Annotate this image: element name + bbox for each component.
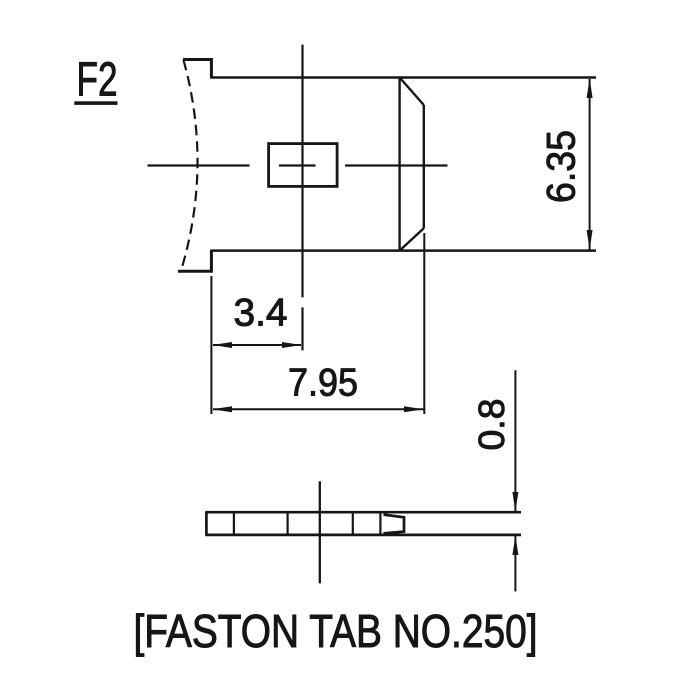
side view crimped tip (384, 515, 405, 534)
side view bend tick 1 (233, 512, 235, 536)
chamfer bottom diagonal (400, 228, 424, 250)
svg-text:6.35: 6.35 (540, 130, 584, 203)
side view bend tick 4 (379, 512, 381, 536)
side view bend tick 3 (352, 512, 354, 536)
extension line right (7.95) (423, 233, 425, 414)
dimension 6.35 (540, 78, 593, 250)
svg-text:3.4: 3.4 (234, 292, 288, 335)
dimension 3.4 (212, 292, 301, 349)
chamfer top diagonal (400, 78, 424, 106)
dimension 0.8 (471, 370, 518, 591)
side view bottom surface with extension to 0.8 dim (206, 534, 522, 537)
chamfer end vertical (423, 105, 425, 228)
svg-text:[FASTON TAB NO.250]: [FASTON TAB NO.250] (134, 605, 538, 657)
latch hole rectangle (269, 144, 338, 187)
svg-text:F2: F2 (77, 53, 118, 107)
tab bottom-left notch (178, 251, 212, 272)
side view left edge (205, 512, 208, 536)
tab right edge (chamfer root line) (398, 78, 400, 251)
horizontal centerline (148, 164, 448, 166)
tab top edge with extension line to 6.35 dim (210, 76, 596, 79)
break line (dashed arc, left edge of tab) (182, 60, 198, 269)
vertical centerline (301, 45, 303, 351)
label F2 (74, 53, 117, 107)
svg-text:0.8: 0.8 (471, 399, 512, 451)
side view bend tick 2 (287, 512, 289, 536)
side view vertical centerline (319, 481, 321, 583)
side view top surface with extension to 0.8 dim (206, 511, 522, 514)
dimension 7.95 (212, 362, 423, 413)
extension line left (3.4 / 7.95) (210, 276, 212, 414)
tab bottom edge with extension line to 6.35 dim (210, 249, 596, 252)
svg-text:7.95: 7.95 (288, 362, 358, 405)
tab top-left notch (183, 60, 211, 78)
